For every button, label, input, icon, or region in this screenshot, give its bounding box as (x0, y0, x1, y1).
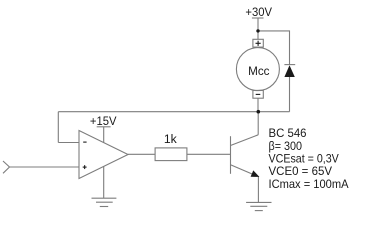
transistor Q1 base bar (230, 136, 232, 174)
op-amp U1 triangle (79, 131, 128, 179)
motor minus box minus sign (256, 93, 261, 95)
motor plus terminal box (253, 39, 263, 47)
input wire to non-inverting input (10, 166, 80, 168)
op-amp output wire (128, 153, 155, 155)
feedback wire into inverting input (58, 142, 79, 144)
diode D1 triangle (284, 65, 294, 77)
+30V rail bar (252, 17, 264, 19)
svg-text:β= 300: β= 300 (269, 140, 303, 153)
motor plus box plus sign (256, 42, 261, 44)
wire resistor to transistor base (187, 153, 231, 155)
wire node A down to motor plus box (257, 31, 259, 39)
resistor R 1k body (155, 148, 187, 161)
svg-text:VCE0 = 65V: VCE0 = 65V (269, 165, 333, 178)
op-amp non-inverting input plus sign (83, 166, 87, 168)
svg-text:ICmax = 100mA: ICmax = 100mA (269, 178, 349, 191)
transistor collector diagonal (231, 135, 259, 146)
op-amp positive supply pin wire (103, 127, 105, 143)
main node wire (feedback / collector / diode horizontal) (58, 111, 289, 113)
ground under op-amp (3 bars) (92, 197, 117, 199)
motor Mcc body circle (236, 48, 279, 91)
op-amp negative supply pin wire (103, 166, 105, 198)
svg-text:+15V: +15V (90, 116, 117, 128)
wire motor minus box to node B (257, 98, 259, 112)
emitter wire down to ground (257, 176, 259, 202)
feedback vertical wire (57, 112, 59, 143)
node B junction dot (257, 110, 261, 114)
svg-text:Mcc: Mcc (248, 64, 269, 78)
transistor emitter arrowhead (251, 170, 260, 177)
node A junction dot (256, 29, 259, 32)
transistor collector vertical wire to node B (257, 112, 259, 135)
motor minus terminal box (253, 90, 263, 98)
diode D1 cathode bar (284, 64, 295, 66)
svg-text:VCEsat = 0,3V: VCEsat = 0,3V (269, 152, 339, 165)
svg-text:BC 546: BC 546 (269, 127, 307, 140)
input connector chevron (3, 161, 10, 173)
+15V rail bar (97, 126, 111, 128)
svg-text:+30V: +30V (245, 7, 272, 19)
diode anode wire to node wire (289, 77, 291, 112)
op-amp inverting input minus sign (83, 141, 86, 143)
ground under transistor (3 bars) (246, 201, 271, 203)
transistor emitter diagonal (231, 165, 254, 175)
wire node A to diode top corner (258, 31, 290, 65)
wire +30V bar to node A (257, 18, 259, 31)
svg-text:1k: 1k (164, 132, 178, 146)
